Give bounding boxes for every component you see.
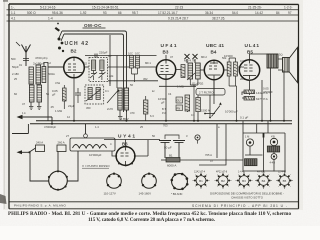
svg-text:1.1: 1.1: [11, 11, 16, 15]
svg-text:240 A: 240 A: [36, 141, 43, 145]
svg-text:12 4-42: 12 4-42: [278, 171, 287, 174]
svg-text:22k: 22k: [109, 74, 114, 78]
svg-text:4700 pF: 4700 pF: [35, 56, 46, 60]
svg-text:* B6 ANN: * B6 ANN: [171, 192, 182, 196]
svg-text:MΩ 4.7k: MΩ 4.7k: [184, 59, 195, 63]
svg-text:93: 93: [103, 11, 107, 15]
svg-text:0.01: 0.01: [240, 59, 246, 63]
svg-text:9.19.21/4 28.7: 9.19.21/4 28.7: [168, 17, 189, 21]
svg-text:10'000µF: 10'000µF: [89, 153, 102, 157]
svg-text:µF: µF: [52, 92, 56, 96]
svg-text:01: 01: [19, 63, 22, 67]
svg-text:PHILIPS-RADIO S. p. A. MILAN: PHILIPS-RADIO S. p. A. MILANO: [14, 204, 67, 208]
svg-text:500 Ω: 500 Ω: [27, 11, 36, 15]
svg-text:12A2 47-4: 12A2 47-4: [194, 171, 206, 174]
svg-text:2x70: 2x70: [107, 107, 113, 111]
svg-text:.05: .05: [50, 105, 54, 109]
svg-text:47: 47: [22, 102, 25, 106]
svg-text:4700pF: 4700pF: [263, 90, 273, 94]
svg-text:MF.1: MF.1: [145, 61, 151, 65]
svg-text:220pF: 220pF: [99, 51, 108, 55]
svg-text:470000pF: 470000pF: [44, 125, 56, 129]
svg-text:B4: B4: [211, 50, 217, 55]
svg-text:14.42: 14.42: [255, 11, 263, 15]
svg-text:10'000 µF: 10'000 µF: [225, 110, 238, 114]
svg-text:SCHEMA DI PRINCIPIO - APP: SCHEMA DI PRINCIPIO - APP BI 281 U -: [192, 204, 287, 208]
svg-text:4A 42-1: 4A 42-1: [257, 171, 266, 174]
svg-text:B1: B1: [199, 179, 203, 183]
svg-text:260 A: 260 A: [58, 141, 65, 145]
svg-text:4-4B: 4-4B: [270, 161, 276, 165]
svg-text:B2: B2: [71, 49, 77, 54]
svg-text:1-.: 1-.: [11, 5, 15, 9]
svg-text:CHASSIS VISTO SOTTO: CHASSIS VISTO SOTTO: [231, 195, 264, 199]
svg-text:1-92: 1-92: [80, 11, 87, 15]
svg-text:22µF: 22µF: [68, 104, 75, 108]
svg-text:54.0: 54.0: [232, 11, 238, 15]
svg-text:1500 A: 1500 A: [201, 109, 210, 113]
svg-text:GU: GU: [177, 99, 181, 103]
svg-text:21-25-26-: 21-25-26-: [248, 5, 262, 9]
svg-text:470: 470: [130, 111, 135, 115]
svg-text:56k: 56k: [222, 56, 227, 60]
svg-text:G1 470Ω: G1 470Ω: [192, 82, 203, 86]
svg-text:27: 27: [66, 134, 69, 138]
svg-text:97: 97: [288, 11, 292, 15]
svg-text:4'B: 4'B: [271, 135, 275, 139]
svg-text:47Ω: 47Ω: [55, 81, 60, 85]
svg-text:500: 500: [11, 57, 16, 61]
svg-text:450: 450: [86, 106, 91, 110]
svg-text:5-13 14-16: 5-13 14-16: [40, 5, 56, 9]
svg-text:47: 47: [210, 159, 213, 163]
svg-text:110-127V: 110-127V: [104, 192, 116, 196]
svg-text:PN: PN: [177, 107, 181, 111]
svg-text:MF.2: MF.2: [201, 55, 207, 59]
svg-text:B4: B4: [262, 179, 266, 183]
svg-text:1-4: 1-4: [48, 17, 53, 21]
svg-text:1 MΩ: 1 MΩ: [177, 85, 184, 89]
svg-text:115 V, catodo 6,8 V. Corrente: 115 V, catodo 6,8 V. Corrente 28 mA plac…: [88, 217, 216, 223]
svg-text:500Ω: 500Ω: [48, 72, 55, 76]
svg-text:82: 82: [14, 92, 17, 96]
svg-text:10C: 10C: [135, 52, 140, 56]
svg-text:B5: B5: [283, 179, 287, 183]
svg-text:22-23: 22-23: [175, 5, 183, 9]
svg-text:µF: µF: [161, 100, 165, 104]
svg-text:84: 84: [276, 11, 280, 15]
svg-text:5Ω: 5Ω: [279, 53, 283, 57]
svg-text:10C: 10C: [128, 52, 133, 56]
svg-text:UL41: UL41: [245, 43, 260, 49]
svg-text:2 T FILTRO: 2 T FILTRO: [199, 91, 214, 95]
svg-text:705 A: 705 A: [205, 153, 212, 157]
svg-text:4.1: 4.1: [11, 17, 16, 21]
svg-text:0.1: 0.1: [105, 89, 109, 93]
svg-text:V = PUNTO ROSSO: V = PUNTO ROSSO: [82, 164, 110, 168]
svg-text:0.1 µF: 0.1 µF: [240, 116, 248, 120]
svg-text:C4: C4: [168, 92, 172, 96]
svg-text:P.A: P.A: [162, 111, 166, 115]
svg-text:1-4 42: 1-4 42: [238, 171, 245, 174]
svg-text:25: 25: [140, 125, 143, 129]
svg-text:2.180: 2.180: [12, 72, 19, 76]
svg-text:95.7: 95.7: [132, 11, 138, 15]
svg-text:56: 56: [130, 83, 133, 87]
svg-text:4.7: 4.7: [108, 54, 112, 58]
svg-text:52: 52: [84, 62, 87, 66]
svg-text:4P22 47-8: 4P22 47-8: [216, 171, 228, 174]
svg-text:1 MΩ: 1 MΩ: [55, 109, 63, 113]
svg-text:4.85 V: 4.85 V: [121, 117, 129, 121]
svg-text:B1: B1: [169, 154, 173, 158]
svg-text:B.T: B.T: [162, 107, 166, 111]
svg-text:95.6-36: 95.6-36: [52, 11, 63, 15]
svg-text:1 M: 1 M: [245, 135, 249, 139]
svg-text:0.1: 0.1: [191, 113, 195, 117]
svg-text:50pF: 50pF: [12, 65, 19, 69]
svg-text:UBC 41: UBC 41: [206, 43, 224, 49]
svg-text:36.34: 36.34: [205, 11, 213, 15]
svg-text:6.3: 6.3: [150, 114, 154, 118]
svg-text:66: 66: [118, 11, 122, 15]
svg-text:703: 703: [163, 124, 168, 128]
svg-text:56: 56: [46, 92, 49, 96]
svg-text:B3: B3: [163, 50, 169, 55]
svg-text:1-2-3-: 1-2-3-: [284, 5, 293, 9]
svg-text:452: 452: [143, 77, 148, 81]
svg-text:50: 50: [152, 134, 155, 138]
svg-text:15-21-24-34-50-51: 15-21-24-34-50-51: [92, 5, 119, 9]
svg-text:38.27.26.: 38.27.26.: [212, 17, 225, 21]
svg-text:1.4: 1.4: [95, 125, 99, 129]
svg-text:47: 47: [170, 55, 173, 59]
svg-text:UCH 42: UCH 42: [65, 41, 89, 47]
svg-text:2M2: 2M2: [240, 77, 246, 81]
svg-text:12: 12: [67, 115, 70, 119]
svg-text:B3: B3: [242, 179, 246, 183]
svg-text:25: 25: [14, 77, 17, 81]
svg-text:B6: B6: [122, 142, 128, 147]
svg-text:B2: B2: [221, 179, 225, 183]
svg-text:145-160V: 145-160V: [139, 192, 152, 196]
svg-text:17.52.21.16.7: 17.52.21.16.7: [158, 11, 178, 15]
svg-text:OM-OC: OM-OC: [84, 23, 102, 28]
svg-text:50 µF: 50 µF: [164, 146, 172, 150]
svg-text:6000 A: 6000 A: [167, 164, 176, 168]
svg-text:1-2: 1-2: [47, 61, 51, 65]
